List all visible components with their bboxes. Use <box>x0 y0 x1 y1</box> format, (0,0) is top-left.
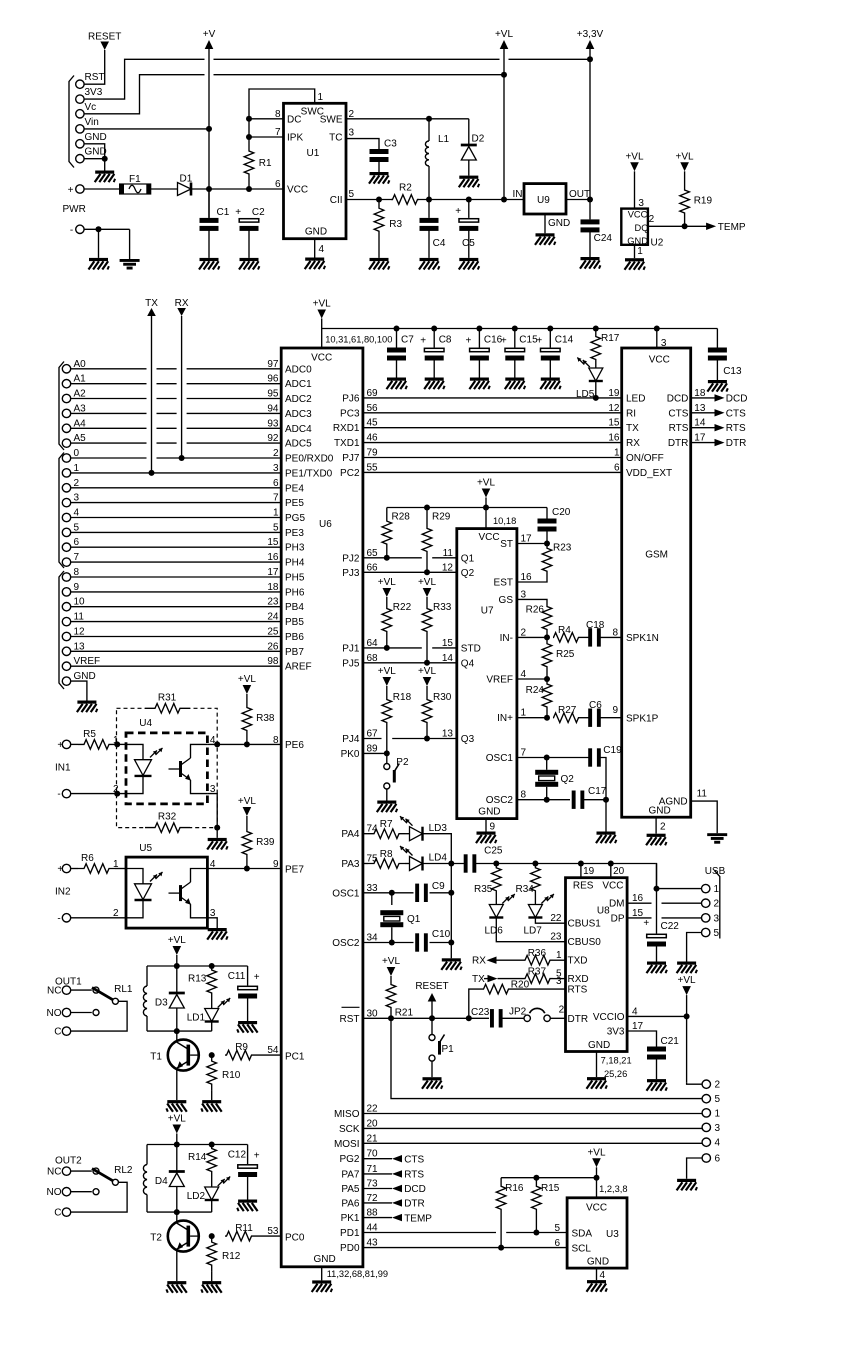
svg-text:U3: U3 <box>606 1229 619 1240</box>
svg-text:+VL: +VL <box>238 674 257 685</box>
power +VL top <box>500 40 509 49</box>
wire relay bottom rail <box>147 1030 212 1032</box>
svg-text:D3: D3 <box>155 998 168 1009</box>
wire U8 GND pins <box>596 1052 598 1078</box>
svg-text:3: 3 <box>715 1123 721 1134</box>
svg-text:PC1: PC1 <box>285 1052 305 1063</box>
svg-text:DC: DC <box>287 115 301 126</box>
node OSC2/Q2 <box>544 797 550 803</box>
svg-text:3V3: 3V3 <box>85 87 103 98</box>
svg-text:C23: C23 <box>471 1007 490 1018</box>
capacitor C24 <box>581 219 600 224</box>
ground connector <box>95 171 114 174</box>
node TEMP arrow <box>706 223 716 230</box>
svg-text:VCC: VCC <box>479 532 500 543</box>
svg-text:ADC5: ADC5 <box>285 439 312 450</box>
wire +VL node to U7 VCC <box>485 508 487 529</box>
svg-text:GND: GND <box>587 1257 609 1268</box>
node R30 bottom / PJ4 <box>424 736 430 742</box>
wire U9 GND <box>544 214 546 233</box>
svg-text:1: 1 <box>714 884 720 895</box>
svg-text:7: 7 <box>74 552 80 563</box>
svg-text:A0: A0 <box>74 359 87 370</box>
resistor R5 <box>71 743 78 745</box>
svg-text:9: 9 <box>74 582 80 593</box>
svg-text:LD1: LD1 <box>187 1013 206 1024</box>
svg-text:C15: C15 <box>519 335 538 346</box>
LED LD2 <box>211 1176 213 1188</box>
node bus/C9 <box>448 890 454 896</box>
power +VL for R18 <box>383 677 392 686</box>
svg-text:19: 19 <box>583 866 595 877</box>
svg-text:RX: RX <box>472 956 486 967</box>
power +VL for R38 <box>243 685 252 694</box>
svg-text:22: 22 <box>550 913 562 924</box>
node R38 bottom <box>244 741 250 747</box>
svg-text:R17: R17 <box>601 333 620 344</box>
wire PJ1 to STD <box>363 647 422 649</box>
svg-text:C9: C9 <box>432 881 445 892</box>
capacitor C25 <box>464 854 468 872</box>
svg-text:RL1: RL1 <box>114 984 133 995</box>
svg-text:2: 2 <box>660 822 666 833</box>
svg-text:ADC2: ADC2 <box>285 394 312 405</box>
wire Vc to +VL rail <box>84 75 204 114</box>
wire OSC1 row <box>363 892 414 894</box>
svg-text:PK1: PK1 <box>341 1213 360 1224</box>
svg-text:5: 5 <box>715 1094 721 1105</box>
wire DM to USB 2 <box>627 902 651 904</box>
power +VL for U7 <box>482 489 491 498</box>
svg-text:DTR: DTR <box>404 1199 425 1210</box>
connector pin 1 <box>702 1109 710 1117</box>
svg-text:IN+: IN+ <box>497 713 513 724</box>
svg-text:4: 4 <box>715 1138 721 1149</box>
ground conn6 <box>677 1179 696 1182</box>
svg-text:VCCIO: VCCIO <box>593 1012 625 1023</box>
svg-text:C1: C1 <box>217 207 230 218</box>
wire OSC2 pin8 <box>517 799 570 801</box>
svg-text:53: 53 <box>267 1226 279 1237</box>
svg-text:GSM: GSM <box>645 550 668 561</box>
wire USB pin5 to ground <box>687 933 702 962</box>
resistor R34 <box>531 864 541 896</box>
signal DCD arrow <box>363 1188 392 1190</box>
ground GSM <box>647 834 666 837</box>
svg-text:5: 5 <box>349 189 355 200</box>
LED LD7 <box>534 895 536 905</box>
svg-text:+VL: +VL <box>678 975 697 986</box>
diode D1 <box>178 183 192 196</box>
wire RES pin19 <box>580 864 582 878</box>
svg-text:R6: R6 <box>81 853 94 864</box>
connector pin A5 <box>62 439 70 447</box>
svg-text:C20: C20 <box>552 507 571 518</box>
wire PD0/SCL row <box>363 1247 567 1249</box>
power +VL for RL2 <box>173 1125 182 1134</box>
wire armature to C <box>71 1001 127 1031</box>
wire 3V3 pin17 to C21 <box>627 1031 656 1047</box>
node pin2/R31 edge <box>114 791 120 797</box>
svg-text:DCD: DCD <box>726 393 748 404</box>
wire IPK pin7 <box>249 136 284 138</box>
connector pin 7 <box>62 558 70 566</box>
svg-text:LED: LED <box>626 393 645 404</box>
wire +VL to U3 VCC <box>596 1167 598 1198</box>
svg-text:SCK: SCK <box>339 1124 360 1135</box>
svg-text:TX: TX <box>145 298 158 309</box>
wire connector A1 to U6 <box>71 383 147 385</box>
svg-text:6: 6 <box>275 179 281 190</box>
wire SWC pin1 loop to DC/IPK/R1 <box>249 89 315 150</box>
connector pin 3 <box>702 1123 710 1131</box>
svg-text:LD7: LD7 <box>524 926 543 937</box>
wire IN2- to pin2 <box>71 917 126 919</box>
ground U5 pin3 <box>208 928 227 931</box>
regulator U9 <box>524 184 566 214</box>
svg-text:GND: GND <box>588 1040 610 1051</box>
node base <box>209 1052 215 1058</box>
svg-text:U7: U7 <box>481 606 494 617</box>
wire U1 GND pin4 <box>314 239 316 258</box>
node RES stub <box>578 861 584 867</box>
wire U6 to GSM VDD_EXT <box>363 471 622 473</box>
svg-text:R16: R16 <box>505 1183 524 1194</box>
wire U6 VCC pin <box>321 319 323 349</box>
wire RX <box>181 316 183 458</box>
wire +3,3V rail <box>589 49 591 219</box>
node LD4/gnd bus <box>448 861 454 867</box>
resistor R9 <box>225 1050 253 1060</box>
svg-text:RXD: RXD <box>568 974 589 985</box>
svg-text:VCC: VCC <box>586 1203 607 1214</box>
connector pin A0 <box>62 365 70 373</box>
ground U1 <box>305 258 324 261</box>
svg-text:9: 9 <box>273 859 279 870</box>
node Q1/OSC2 <box>389 940 395 946</box>
wire emitter to ground <box>176 1249 178 1281</box>
ground C15 <box>505 378 524 381</box>
wire CII pin5 output rail <box>346 199 393 201</box>
svg-text:20: 20 <box>613 866 625 877</box>
relay RL2 coil <box>146 1145 148 1165</box>
wire connector 5 to U6 <box>71 531 282 533</box>
capacitor C12 <box>247 1145 249 1165</box>
svg-text:+VL: +VL <box>238 796 257 807</box>
resistor R15 <box>532 1178 542 1218</box>
bracket USB <box>715 871 720 939</box>
capacitor C1 <box>208 189 210 218</box>
svg-text:C14: C14 <box>555 335 574 346</box>
svg-text:+: + <box>235 207 241 218</box>
svg-text:C10: C10 <box>432 929 451 940</box>
wire PK0 to P2 <box>363 752 387 754</box>
ground C24 <box>581 257 600 260</box>
svg-text:6: 6 <box>74 537 80 548</box>
connector pin 3V3 <box>76 95 84 103</box>
diode D3 <box>176 966 178 993</box>
wire U6 to GSM RX <box>363 442 622 444</box>
svg-text:23: 23 <box>550 932 562 943</box>
svg-text:ADC3: ADC3 <box>285 409 312 420</box>
svg-text:RTS: RTS <box>404 1170 424 1181</box>
resistor R39 <box>246 816 248 829</box>
svg-text:C4: C4 <box>433 238 446 249</box>
resistor R11 <box>225 1231 253 1241</box>
svg-text:6: 6 <box>554 1238 560 1249</box>
svg-text:C17: C17 <box>588 786 607 797</box>
node R22 bottom / PJ1 <box>384 645 390 651</box>
inductor L1 <box>428 119 430 141</box>
svg-text:-: - <box>57 913 60 924</box>
svg-text:PE7: PE7 <box>285 865 304 876</box>
capacitor C13 <box>716 329 718 348</box>
connector pin 8 <box>62 573 70 581</box>
node IN+ <box>544 715 550 721</box>
ground C7 <box>387 378 406 381</box>
power +VL for U2 <box>630 162 639 171</box>
op-amp U1 (switching regulator) <box>284 103 347 238</box>
svg-text:R20: R20 <box>511 980 530 991</box>
ground C22 <box>647 962 666 965</box>
svg-text:STD: STD <box>461 643 481 654</box>
svg-text:PJ4: PJ4 <box>342 734 360 745</box>
svg-text:RXD1: RXD1 <box>333 423 360 434</box>
node IPK <box>246 134 252 140</box>
wire U4 pin3 to ground <box>207 794 217 838</box>
earth PWR- <box>120 259 140 262</box>
connector pin A2 <box>62 394 70 402</box>
svg-text:10: 10 <box>74 597 86 608</box>
ground C5 <box>459 258 478 261</box>
wire connector A3 to U6 <box>71 412 147 414</box>
svg-text:CTS: CTS <box>404 1154 424 1165</box>
ground C8 <box>425 378 444 381</box>
node R top <box>209 963 215 969</box>
svg-text:+: + <box>643 918 649 929</box>
capacitor C7 <box>396 329 398 348</box>
svg-text:RL2: RL2 <box>114 1165 133 1176</box>
svg-text:TEMP: TEMP <box>404 1213 432 1224</box>
svg-text:RTS: RTS <box>726 423 746 434</box>
svg-text:Q2: Q2 <box>461 568 475 579</box>
node CII/R3 <box>376 197 382 203</box>
wire MISO to 1 <box>363 1113 702 1115</box>
wire to connector 2 <box>687 1082 703 1084</box>
svg-text:VDD_EXT: VDD_EXT <box>626 468 672 479</box>
svg-text:PH4: PH4 <box>285 558 305 569</box>
ground U9 <box>536 233 555 236</box>
ground C3 <box>370 172 389 175</box>
svg-text:11: 11 <box>443 548 454 559</box>
wire base resistor to U6 pin 54 <box>253 1054 281 1056</box>
svg-text:P2: P2 <box>396 757 409 768</box>
ground D2 <box>459 176 478 179</box>
svg-text:VREF: VREF <box>74 656 101 667</box>
connector pin 9 <box>62 588 70 596</box>
optocoupler U4 outer dashed R31 path <box>117 708 218 827</box>
svg-text:8: 8 <box>74 567 80 578</box>
wire collector <box>176 1031 178 1042</box>
earth AGND <box>707 833 727 836</box>
svg-text:IN2: IN2 <box>55 887 71 898</box>
svg-text:SWE: SWE <box>320 115 343 126</box>
ground P2 <box>377 801 396 804</box>
node OUT/+3,3V <box>587 197 593 203</box>
connector pin A1 <box>62 380 70 388</box>
svg-text:+VL: +VL <box>676 151 695 162</box>
svg-text:F1: F1 <box>129 174 141 185</box>
capacitor C19 <box>588 748 592 766</box>
resistor R18 <box>386 686 388 697</box>
node VREF <box>544 676 550 682</box>
svg-text:+VL: +VL <box>378 577 397 588</box>
svg-text:IN: IN <box>513 189 523 200</box>
crystal Q2 <box>535 770 558 775</box>
wire connector A4 to U6 <box>71 427 147 429</box>
node rail C7 <box>394 326 400 332</box>
svg-text:R19: R19 <box>694 196 713 207</box>
wire VCC line to USB 1 <box>655 864 656 889</box>
svg-text:CII: CII <box>330 195 343 206</box>
svg-text:PD0: PD0 <box>340 1243 360 1254</box>
node +V / VCC <box>206 186 212 192</box>
node pin3/R32 <box>214 825 220 831</box>
connector pin RST <box>76 80 84 88</box>
svg-text:C2: C2 <box>252 207 265 218</box>
svg-text:C19: C19 <box>603 745 622 756</box>
wire ST pin17 <box>517 543 547 545</box>
connector pin GND <box>76 140 84 148</box>
svg-text:PH6: PH6 <box>285 587 305 598</box>
capacitor C14 <box>549 329 551 348</box>
wire R28 rail <box>387 507 547 509</box>
svg-text:R24: R24 <box>526 685 545 696</box>
svg-text:DTR: DTR <box>668 438 689 449</box>
svg-text:10,31,61,80,100: 10,31,61,80,100 <box>325 335 392 345</box>
svg-text:11: 11 <box>697 789 708 800</box>
ground P1 <box>423 1077 442 1080</box>
svg-text:+: + <box>57 864 63 875</box>
svg-text:PJ1: PJ1 <box>342 643 360 654</box>
svg-text:4: 4 <box>74 508 80 519</box>
svg-text:DP: DP <box>611 913 625 924</box>
node R39 bottom <box>244 866 250 872</box>
node RX / PE0 <box>179 455 185 461</box>
svg-text:PB4: PB4 <box>285 602 304 613</box>
wire GSM GND pin2 <box>655 817 657 834</box>
svg-text:OSC1: OSC1 <box>486 753 514 764</box>
svg-text:VREF: VREF <box>486 675 513 686</box>
svg-text:R15: R15 <box>541 1183 560 1194</box>
svg-text:PG2: PG2 <box>339 1154 359 1165</box>
jumper JP2 <box>502 1017 524 1019</box>
terminal IN1 - <box>62 789 70 797</box>
capacitor C2 <box>239 219 259 222</box>
svg-text:GND: GND <box>305 227 327 238</box>
svg-text:+3,3V: +3,3V <box>577 29 604 40</box>
node D bottom <box>174 1209 180 1215</box>
resistor R17 <box>595 329 597 335</box>
ground R3 <box>370 258 389 261</box>
connector pin 0 <box>62 454 70 462</box>
signal CTS arrow <box>363 1158 392 1160</box>
node USB vbus <box>654 886 660 892</box>
svg-text:R25: R25 <box>556 649 575 660</box>
ground USB5 <box>677 962 696 965</box>
ground C11 <box>238 1021 257 1024</box>
node C25/R34 <box>532 861 538 867</box>
wire TX <box>151 316 153 473</box>
resistor R25 <box>542 637 552 673</box>
resistor R30 <box>426 686 428 697</box>
svg-text:PB5: PB5 <box>285 617 304 628</box>
svg-text:1,2,3,8: 1,2,3,8 <box>599 1184 627 1194</box>
svg-text:L1: L1 <box>438 134 450 145</box>
svg-text:CBUS0: CBUS0 <box>568 937 602 948</box>
svg-text:C21: C21 <box>661 1036 680 1047</box>
resistor R19 <box>684 171 686 189</box>
capacitor C8 <box>433 329 435 348</box>
svg-text:OSC2: OSC2 <box>486 795 514 806</box>
node base <box>209 1233 215 1239</box>
svg-text:R10: R10 <box>222 1070 241 1081</box>
svg-text:RESET: RESET <box>88 32 121 43</box>
signal RTS arrow <box>363 1173 392 1175</box>
ground PWR- <box>89 258 108 261</box>
svg-text:PH3: PH3 <box>285 543 305 554</box>
wire SWE pin2 to L1/D2 <box>346 118 469 120</box>
svg-text:1: 1 <box>318 92 324 103</box>
ground U8 <box>587 1077 606 1080</box>
wire LD6 to CBUS0 <box>496 918 565 942</box>
svg-text:R38: R38 <box>256 713 275 724</box>
svg-text:5: 5 <box>74 522 80 533</box>
connector pin 12 <box>62 632 70 640</box>
svg-text:LD6: LD6 <box>485 926 504 937</box>
svg-text:DCD: DCD <box>404 1184 426 1195</box>
svg-text:PJ3: PJ3 <box>342 568 360 579</box>
svg-text:R21: R21 <box>395 1008 414 1019</box>
svg-text:+VL: +VL <box>313 299 332 310</box>
node output/L1 <box>426 197 432 203</box>
svg-text:LD3: LD3 <box>429 823 448 834</box>
capacitor C16 <box>478 329 480 348</box>
svg-text:GND: GND <box>314 1254 336 1265</box>
svg-text:C11: C11 <box>228 971 246 982</box>
capacitor C11 <box>247 966 249 986</box>
svg-text:PB7: PB7 <box>285 647 304 658</box>
svg-text:VCC: VCC <box>311 353 332 364</box>
svg-text:RTS: RTS <box>669 423 689 434</box>
svg-text:RES: RES <box>573 881 594 892</box>
resistor R22 <box>386 597 388 606</box>
wire U7 VCC rail to C20 <box>546 508 548 519</box>
capacitor C6 <box>579 717 589 719</box>
LED LD4 <box>410 857 423 871</box>
svg-text:R1: R1 <box>259 158 272 169</box>
node Q1/OSC1 <box>389 890 395 896</box>
wire gnd bus <box>450 864 452 959</box>
node VCC stub <box>608 861 614 867</box>
svg-text:C8: C8 <box>439 335 452 346</box>
resistor R37 <box>498 978 523 980</box>
svg-text:PA4: PA4 <box>341 829 360 840</box>
svg-text:+V: +V <box>203 29 216 40</box>
wire DP to USB 3 <box>627 917 651 919</box>
wire U7 GND pin9 <box>485 819 487 832</box>
ground C14 <box>541 378 560 381</box>
